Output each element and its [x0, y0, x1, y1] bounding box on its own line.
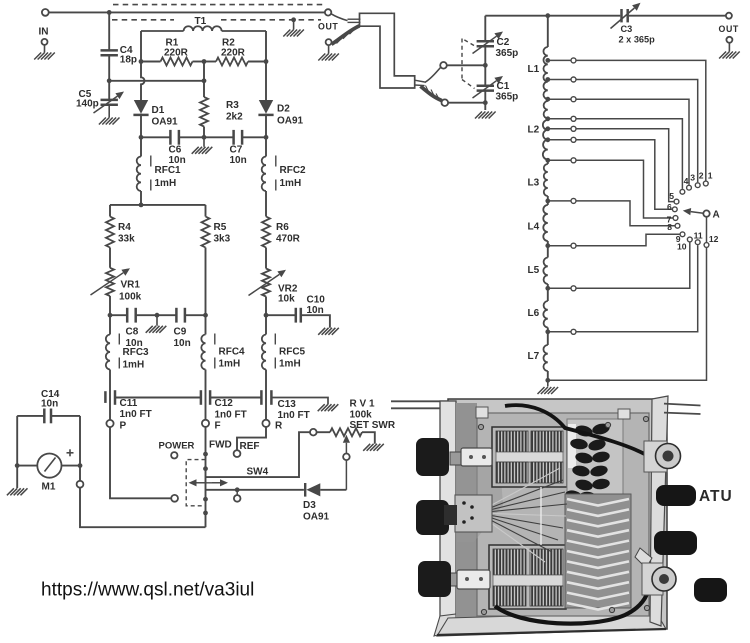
- svg-text:1mH: 1mH: [219, 359, 241, 370]
- photo: bottom flange: [437, 612, 666, 636]
- svg-text:OA91: OA91: [152, 117, 179, 128]
- svg-text:3: 3: [690, 173, 695, 183]
- wire rail right corner: [205, 205, 207, 217]
- photo: black cable bottom: [495, 579, 650, 624]
- svg-text:10n: 10n: [230, 155, 247, 166]
- svg-text:1mH: 1mH: [280, 178, 302, 189]
- svg-text:R5: R5: [214, 222, 227, 233]
- wire mid tap down: [203, 62, 205, 81]
- bridge detector rail: [109, 80, 204, 82]
- wire C6 to mid node: [179, 136, 204, 138]
- svg-text:P: P: [120, 421, 127, 432]
- terminal to C1: [442, 99, 449, 106]
- svg-text:C1: C1: [497, 81, 510, 92]
- capacitor C14: [17, 415, 44, 417]
- coax shield dashed line lower right: [221, 19, 321, 21]
- svg-text:1n0 FT: 1n0 FT: [120, 409, 152, 420]
- terminal F: [202, 420, 209, 427]
- node C1 bottom: [483, 100, 488, 105]
- photo: screws: [478, 416, 649, 614]
- node D1 bottom: [139, 135, 144, 140]
- variable capacitor C5: [101, 99, 118, 102]
- wire IN to OUT (bridge primary): [49, 11, 325, 13]
- resistor R1: [161, 58, 193, 66]
- node meter right: [78, 463, 83, 468]
- gang link C1-C2 dashed: [462, 39, 475, 89]
- svg-text:10n: 10n: [174, 338, 191, 349]
- svg-text:L3: L3: [528, 178, 540, 189]
- svg-text:365p: 365p: [496, 92, 519, 103]
- inductor L1-L7 winding: [543, 47, 547, 99]
- wire to C8: [110, 314, 127, 316]
- photo: black cable top: [505, 405, 650, 457]
- capacitor C8: [126, 308, 129, 323]
- wire OUT to coax inner: [331, 14, 347, 21]
- svg-text:SET SWR: SET SWR: [350, 420, 396, 431]
- node R5-RFC4: [203, 313, 208, 318]
- coax braid to ground: [332, 26, 360, 44]
- coax shield dashed line lower left: [112, 19, 174, 21]
- wire tap2 to contact 2: [576, 80, 698, 183]
- wire box left vertical: [140, 31, 142, 62]
- wire coil spine top: [547, 16, 549, 47]
- wire C10 to ground: [301, 315, 330, 328]
- photo: binding post 2: [654, 531, 697, 555]
- svg-text:IN: IN: [39, 27, 49, 38]
- photo: right wall: [650, 396, 668, 626]
- photo: ferrite bead board: [564, 419, 623, 509]
- coil tap junctions and tap terminals: [545, 58, 550, 63]
- wire tap10 to contact 10: [576, 242, 690, 288]
- switch contact below D3 wire: [236, 490, 238, 495]
- wire VR2 node to C10: [266, 314, 296, 316]
- svg-text:L5: L5: [528, 265, 540, 276]
- node VR2 bottom: [264, 313, 269, 318]
- svg-text:100k: 100k: [119, 292, 142, 303]
- wiper arm arrow: [691, 212, 704, 214]
- coax shield dashed line top: [113, 4, 325, 6]
- ground coil bottom: [547, 380, 549, 386]
- resistor R3: [200, 97, 208, 127]
- svg-text:T1: T1: [195, 16, 207, 27]
- wire C9 to node: [185, 314, 206, 316]
- ground under antenna OUT: [726, 37, 732, 43]
- wire node to R2: [204, 61, 216, 63]
- feedthrough capacitor C11: [104, 391, 107, 403]
- wire coax inner to C2 node: [425, 68, 441, 83]
- photo: binding post 1: [656, 485, 696, 506]
- wire top to C4: [108, 12, 110, 50]
- node D3 wire: [235, 487, 240, 492]
- wire C5 to ground: [108, 105, 110, 118]
- wire D2 to C7 node: [265, 115, 267, 138]
- svg-text:C13: C13: [278, 399, 297, 410]
- node D2 bottom: [264, 135, 269, 140]
- wire meter to SW4 bottom: [80, 488, 206, 528]
- wire divider rail: [110, 204, 206, 206]
- node C8-C9 ground: [155, 313, 160, 318]
- node at C4 top: [107, 10, 112, 15]
- svg-text:L1: L1: [528, 64, 540, 75]
- resistor R4: [106, 217, 114, 248]
- terminal P: [106, 420, 113, 427]
- svg-text:18p: 18p: [120, 55, 137, 66]
- svg-text:8: 8: [667, 222, 672, 232]
- svg-text:SW4: SW4: [247, 467, 269, 478]
- wire tap3 to contact 3: [576, 99, 689, 185]
- svg-text:https://www.qsl.net/va3iul: https://www.qsl.net/va3iul: [41, 580, 254, 601]
- svg-text:11: 11: [694, 231, 703, 241]
- svg-text:A: A: [713, 210, 720, 221]
- svg-text:R V 1: R V 1: [350, 399, 375, 410]
- switch contact P side: [171, 495, 178, 502]
- photo: knob 3: [418, 561, 451, 597]
- node R1-R2: [202, 59, 207, 64]
- svg-text:2 x 365p: 2 x 365p: [619, 35, 656, 45]
- diode D2: [259, 100, 273, 114]
- svg-text:D2: D2: [277, 104, 290, 115]
- node R1 left: [139, 59, 144, 64]
- wire SW4 to D3: [206, 489, 304, 491]
- wire rail left corner: [109, 205, 111, 217]
- svg-text:33k: 33k: [118, 234, 135, 245]
- svg-text:VR1: VR1: [121, 280, 141, 291]
- ground after C10: [318, 328, 339, 335]
- svg-text:R: R: [275, 421, 283, 432]
- photo: inner plate: [477, 413, 649, 616]
- photo: standoffs: [476, 407, 630, 419]
- wire tap4 to contact 4: [576, 119, 682, 189]
- resistor R2: [216, 58, 248, 66]
- wire to C2 node: [447, 64, 486, 66]
- capacitor C6: [169, 130, 172, 145]
- svg-text:RFC5: RFC5: [279, 347, 306, 358]
- wire mid node to C7: [204, 136, 234, 138]
- photo: left wall: [456, 403, 477, 624]
- wire C2 top: [484, 16, 486, 42]
- node R3 bottom: [202, 135, 207, 140]
- wire coil bottom to contact 12: [548, 248, 707, 380]
- wire to meter: [17, 465, 37, 467]
- wire C11 to C12: [115, 397, 201, 399]
- svg-text:OUT: OUT: [719, 24, 739, 34]
- wire C1 bottom: [484, 91, 486, 110]
- SW4 motion arrow: [196, 482, 221, 484]
- choke RFC5: [265, 315, 267, 334]
- coax inner tip right: [415, 80, 425, 82]
- wire tap6 to contact 6: [576, 140, 672, 210]
- potentiometer VR2: [262, 269, 270, 297]
- feedthrough capacitor C13: [260, 390, 263, 405]
- ground RV1: [363, 444, 384, 451]
- resistor R6: [262, 217, 270, 248]
- svg-text:220R: 220R: [164, 48, 189, 59]
- RV1 wiper: [345, 443, 347, 454]
- wire node to R3: [203, 81, 205, 97]
- choke RFC3: [109, 315, 111, 334]
- wire rail to R1: [141, 61, 161, 63]
- svg-text:C8: C8: [126, 327, 139, 338]
- wire tap5 to contact 5: [576, 129, 673, 202]
- node coil top: [545, 13, 550, 18]
- svg-text:1mH: 1mH: [155, 178, 177, 189]
- photo: variable capacitor top: [492, 427, 567, 487]
- svg-text:POWER: POWER: [159, 441, 195, 452]
- capacitor C1: [477, 84, 494, 87]
- svg-text:2k2: 2k2: [226, 112, 243, 123]
- node R2 right: [264, 59, 269, 64]
- svg-text:D3: D3: [303, 500, 316, 511]
- photo: shadow: [457, 458, 503, 542]
- capacitor C7: [232, 130, 235, 145]
- svg-text:220R: 220R: [221, 48, 246, 59]
- diode D1: [134, 100, 148, 114]
- photo: link wire between capacitors: [540, 487, 542, 545]
- photo: coax connector top right: [644, 441, 681, 472]
- photo: front panel rod left: [391, 401, 454, 408]
- wire box to D1 with hop: [141, 62, 145, 101]
- ground under C8-C9: [156, 315, 158, 326]
- node C4-C5: [107, 78, 112, 83]
- svg-text:1mH: 1mH: [279, 359, 301, 370]
- svg-text:RFC4: RFC4: [219, 347, 246, 358]
- photo: shaft coupler bottom: [447, 570, 490, 589]
- node detector mid: [202, 78, 207, 83]
- photo: binding post 3: [694, 578, 727, 602]
- node shield ground tap: [291, 17, 296, 22]
- ground under OUT: [326, 39, 332, 45]
- svg-text:RFC2: RFC2: [280, 165, 307, 176]
- wire D3 to RV1 wiper: [320, 489, 346, 491]
- wire R6 to VR2: [265, 248, 267, 269]
- svg-text:1mH: 1mH: [123, 360, 145, 371]
- wire P to switch: [110, 427, 171, 498]
- wire SW4 to RV1: [206, 432, 311, 477]
- wire C4 to node: [108, 55, 110, 81]
- antenna terminal OUT: [726, 13, 732, 19]
- photo: shaft coupler top: [450, 448, 492, 466]
- wire C7 to D2 node: [242, 136, 266, 138]
- wire R4 to VR1: [109, 248, 111, 268]
- svg-text:F: F: [215, 421, 221, 432]
- wire C14 left down: [16, 416, 18, 488]
- photo: coax connector bottom right: [635, 548, 676, 595]
- node C2 bottom: [483, 63, 488, 68]
- node VR1 bottom: [108, 313, 113, 318]
- photo: front rod right: [664, 404, 701, 414]
- output terminal OUT (bridge): [325, 9, 331, 15]
- resistor R5: [202, 217, 210, 248]
- capacitor C3: [620, 9, 623, 22]
- wire R to REF contact: [237, 427, 266, 450]
- svg-text:R4: R4: [118, 222, 131, 233]
- svg-text:1n0 FT: 1n0 FT: [278, 410, 310, 421]
- wire F to SW4 chain: [205, 427, 207, 527]
- wire R5 down: [205, 248, 207, 316]
- wire node to D2: [265, 62, 267, 101]
- switch contact REF: [234, 450, 241, 457]
- choke RFC1: [140, 137, 142, 156]
- svg-text:365p: 365p: [496, 48, 519, 59]
- svg-text:10n: 10n: [41, 398, 58, 409]
- svg-text:OA91: OA91: [303, 512, 330, 523]
- diode D3: [304, 483, 306, 497]
- wire R3 to node: [203, 127, 205, 138]
- wire to RV1: [317, 431, 330, 433]
- capacitor C4: [101, 49, 118, 52]
- ground under IN: [42, 39, 48, 45]
- transformer T1 secondary winding: [141, 30, 184, 32]
- coax cable body (pictorial): [360, 13, 415, 88]
- svg-text:470R: 470R: [276, 234, 301, 245]
- svg-text:D1: D1: [152, 105, 165, 116]
- wire RV1 to ground: [362, 432, 375, 444]
- wiper terminal A: [703, 210, 709, 216]
- svg-text:100k: 100k: [350, 410, 373, 421]
- ground under R3 node: [203, 137, 205, 147]
- svg-text:L4: L4: [528, 222, 540, 233]
- choke RFC4: [205, 315, 207, 334]
- ground on shield: [293, 20, 295, 30]
- potentiometer RV1: [330, 428, 362, 436]
- photo: knob 1: [416, 438, 449, 476]
- svg-text:10k: 10k: [278, 294, 295, 305]
- svg-text:6: 6: [667, 202, 672, 212]
- switch contact POWER: [171, 452, 177, 458]
- svg-text:2: 2: [699, 171, 704, 181]
- svg-text:M1: M1: [42, 482, 56, 493]
- SW4 contact dots: [203, 452, 208, 457]
- svg-text:OA91: OA91: [277, 116, 304, 127]
- svg-text:L7: L7: [528, 351, 540, 362]
- svg-text:ATU: ATU: [699, 488, 733, 505]
- connector meter minus: [77, 481, 84, 488]
- svg-text:3k3: 3k3: [214, 234, 231, 245]
- wire C14 right down: [79, 416, 81, 481]
- svg-text:FWD: FWD: [209, 440, 232, 451]
- wire VR1 to C8 rail: [109, 296, 111, 315]
- svg-text:140p: 140p: [76, 99, 99, 110]
- ground under C5: [99, 118, 120, 125]
- wire C8 to ground node: [136, 314, 157, 316]
- wire tap1 to contact 1: [576, 60, 706, 180]
- ground meter: [7, 488, 28, 495]
- svg-text:R6: R6: [276, 222, 289, 233]
- svg-text:C2: C2: [497, 37, 510, 48]
- svg-text:REF: REF: [240, 441, 260, 452]
- svg-text:1: 1: [708, 171, 713, 181]
- svg-text:L2: L2: [528, 125, 540, 136]
- photo: variable capacitor bottom: [489, 545, 566, 609]
- capacitor C9: [175, 308, 178, 323]
- svg-text:RFC1: RFC1: [155, 165, 182, 176]
- svg-text:R3: R3: [226, 100, 239, 111]
- wire tuner top rail: [485, 15, 620, 17]
- photo: knob 2: [416, 500, 449, 535]
- wire C13 to ground: [271, 398, 328, 405]
- photo: air coil: [565, 494, 631, 610]
- svg-text:5: 5: [669, 191, 674, 201]
- node meter left: [15, 463, 20, 468]
- capacitor C2: [477, 40, 494, 43]
- coax braid to C1 node: [421, 86, 442, 100]
- wire tap8 to contact 8: [576, 201, 674, 226]
- wire C12 to C13: [210, 397, 261, 399]
- choke RFC2: [265, 137, 267, 156]
- wire meter to right node: [62, 465, 81, 467]
- svg-text:C12: C12: [215, 398, 234, 409]
- wire box right vertical: [265, 31, 267, 62]
- coax inner tip left: [348, 18, 361, 20]
- wire C2-C1: [484, 46, 486, 85]
- node RFC1 bottom: [139, 203, 144, 208]
- capacitor C10: [295, 308, 298, 323]
- photo: rotary switch body: [444, 495, 492, 532]
- wire D1 node to C6: [141, 136, 170, 138]
- feedthrough capacitor C12: [200, 390, 203, 405]
- wire C3 to OUT: [629, 15, 726, 17]
- wire R2 to right: [248, 61, 266, 63]
- photo: chassis base: [448, 399, 667, 629]
- svg-text:OUT: OUT: [318, 22, 338, 32]
- wire contact 12 to A: [706, 217, 708, 242]
- wire R1 to node: [193, 61, 205, 63]
- meter M1: [37, 454, 61, 478]
- svg-text:C9: C9: [174, 327, 187, 338]
- wire to C9: [157, 314, 176, 316]
- SW4 gang dashed box: [186, 460, 205, 506]
- wire tap7 to contact 7: [576, 160, 672, 218]
- wire D1 to C6 node: [140, 115, 142, 138]
- node coil bottom: [545, 378, 550, 383]
- svg-text:4: 4: [684, 176, 689, 186]
- svg-text:C10: C10: [307, 295, 326, 306]
- ground under C1: [475, 112, 496, 119]
- photo: left flange: [434, 401, 456, 636]
- wire tap9 to contact 9: [576, 234, 679, 245]
- wire tap11 to contact 11: [576, 245, 698, 332]
- connector RV1 left: [310, 429, 317, 436]
- potentiometer VR1: [106, 268, 114, 296]
- svg-text:L6: L6: [528, 308, 540, 319]
- svg-text:12: 12: [709, 234, 719, 244]
- wire node to C5: [108, 81, 110, 100]
- svg-text:10: 10: [677, 241, 687, 251]
- wire to C1 node: [448, 102, 485, 104]
- svg-text:C11: C11: [120, 398, 138, 409]
- photo: wiring fan: [477, 468, 567, 562]
- input terminal IN: [42, 9, 49, 16]
- terminal R: [262, 420, 269, 427]
- svg-text:RFC3: RFC3: [123, 347, 150, 358]
- wire VR2 down: [265, 297, 267, 316]
- svg-text:C3: C3: [621, 24, 633, 34]
- svg-text:1n0 FT: 1n0 FT: [215, 410, 247, 421]
- ground after C13: [318, 404, 339, 411]
- terminal to C2: [440, 62, 447, 69]
